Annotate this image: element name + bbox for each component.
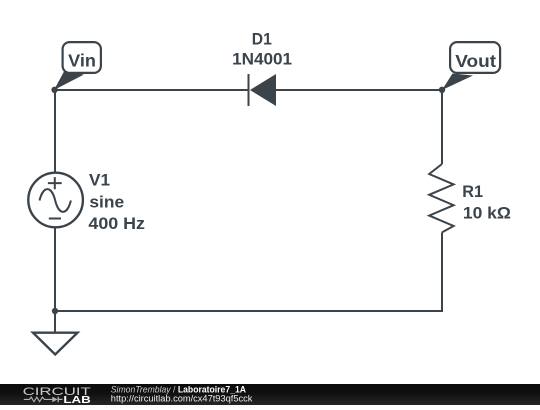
node junction Vin bbox=[51, 87, 57, 93]
svg-text:sine: sine bbox=[89, 193, 124, 211]
node label Vin tail bbox=[54, 72, 84, 91]
ground symbol triangle bbox=[33, 333, 78, 355]
voltage source V1 circle bbox=[28, 173, 83, 228]
voltage source V1 plus sign bbox=[48, 177, 62, 189]
voltage source V1 sine wave bbox=[40, 189, 71, 212]
wire top-right horizontal (diode anode to Vout node) bbox=[276, 89, 442, 91]
svg-text:400 Hz: 400 Hz bbox=[88, 215, 145, 233]
wire left vertical lower (V1 bottom to bottom node) bbox=[54, 227, 56, 312]
footer logo diode glyph bbox=[52, 397, 57, 403]
footer logo diode bar and lead bbox=[58, 397, 62, 403]
voltage source V1 minus sign bbox=[49, 218, 61, 220]
ground stub wire bbox=[54, 311, 56, 332]
svg-text:V1: V1 bbox=[89, 172, 110, 190]
diode D1 triangle bbox=[250, 74, 276, 106]
wire bottom horizontal and right vertical lower (bottom node to R1 bottom) bbox=[55, 232, 442, 311]
footer bar background bbox=[0, 384, 540, 405]
svg-text:1N4001: 1N4001 bbox=[232, 51, 292, 69]
diode D1 cathode bar bbox=[248, 74, 250, 106]
footer logo resistor squiggle bbox=[24, 397, 53, 402]
node junction Vout bbox=[439, 87, 445, 93]
svg-text:D1: D1 bbox=[252, 30, 272, 48]
node label Vout box bbox=[450, 42, 500, 73]
wire right vertical upper (Vout node to R1 top) bbox=[441, 90, 443, 164]
svg-text:Vout: Vout bbox=[455, 51, 496, 71]
node label Vin box bbox=[63, 42, 101, 73]
svg-text:R1: R1 bbox=[462, 183, 483, 201]
node label Vout tail bbox=[442, 74, 473, 91]
wire top-left horizontal (Vin node to diode cathode) bbox=[55, 89, 248, 91]
svg-text:Vin: Vin bbox=[68, 51, 96, 71]
svg-text:10 kΩ: 10 kΩ bbox=[463, 204, 511, 222]
resistor R1 zigzag bbox=[429, 164, 453, 232]
svg-text:http://circuitlab.com/cx47t93q: http://circuitlab.com/cx47t93qf5cck bbox=[111, 394, 253, 404]
svg-text:LAB: LAB bbox=[63, 394, 91, 405]
node junction bottom bbox=[52, 308, 58, 314]
wire left vertical upper (Vin node to V1 top) bbox=[54, 89, 56, 174]
